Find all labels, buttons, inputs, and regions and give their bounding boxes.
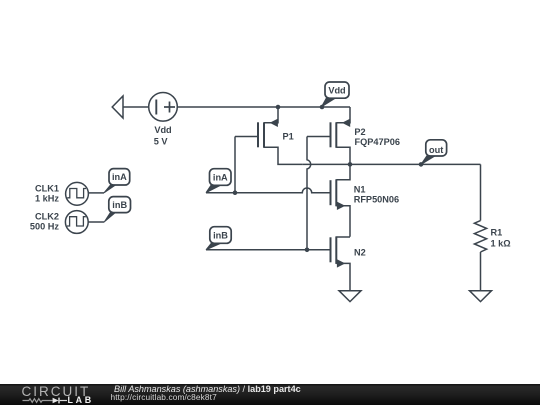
wire inA vertical link (x=235) xyxy=(234,137,236,193)
junction node at rail / P1 source xyxy=(276,105,281,110)
wire P2 drain down to out node xyxy=(336,147,350,164)
wire R1 to ground xyxy=(480,252,482,291)
svg-text:CLK2: CLK2 xyxy=(35,212,59,222)
transistor N2 xyxy=(331,236,345,266)
svg-text:out: out xyxy=(429,145,443,155)
source CLK1 (square wave) xyxy=(66,182,89,205)
value label Vdd / 5 V xyxy=(30,85,511,257)
wire V1 to Vdd rail xyxy=(177,106,350,108)
wire P2 gate lead xyxy=(307,136,331,138)
wire inB (y=249.8) xyxy=(206,249,331,251)
resistor R1 xyxy=(474,221,486,252)
transistor P2 xyxy=(331,119,350,147)
svg-text:5 V: 5 V xyxy=(154,137,169,147)
svg-text:N1: N1 xyxy=(354,184,366,194)
junction node Vdd flag anchor xyxy=(320,105,325,110)
transistor N1 xyxy=(331,179,345,209)
svg-text:P1: P1 xyxy=(283,132,294,142)
svg-text:FQP47P06: FQP47P06 xyxy=(355,137,400,147)
junction node out flag anchor xyxy=(419,162,424,167)
flag inB (left, at CLK2) xyxy=(104,197,130,222)
svg-text:inB: inB xyxy=(213,230,228,240)
wire ground to V1 xyxy=(123,106,148,108)
wire out line (y=164) xyxy=(302,163,480,165)
svg-text:CLK1: CLK1 xyxy=(35,184,59,194)
wire P1 drain to out line xyxy=(264,147,302,164)
svg-text:P2: P2 xyxy=(354,127,365,137)
wire N2 source to ground xyxy=(336,263,350,290)
svg-text:inB: inB xyxy=(112,200,127,210)
svg-text:Vdd: Vdd xyxy=(328,85,345,95)
svg-text:N2: N2 xyxy=(354,248,366,258)
junction node inB / P2-gate link xyxy=(305,248,310,253)
wire P1 gate lead xyxy=(235,136,258,138)
flag out xyxy=(421,140,447,165)
wire inA (y=192.7) with hop over x=307 vertical xyxy=(206,188,331,193)
flag inA (left, at CLK1) xyxy=(104,169,130,193)
svg-text:R1: R1 xyxy=(491,228,503,238)
wire CLK2 to inB flag xyxy=(88,221,104,223)
wire P2 source up to rail xyxy=(336,107,350,123)
svg-text:inA: inA xyxy=(213,172,228,182)
svg-text:Vdd: Vdd xyxy=(154,125,171,135)
ground (below R1) xyxy=(470,291,492,302)
ground (left of voltage source, pointing left) xyxy=(112,96,123,118)
svg-text:500 Hz: 500 Hz xyxy=(30,222,60,232)
logo resistor+diode icon xyxy=(23,398,68,404)
svg-text:inA: inA xyxy=(112,172,127,182)
source CLK2 (square wave) xyxy=(65,211,88,234)
flag Vdd xyxy=(322,82,350,107)
flag inA (middle) xyxy=(206,169,231,193)
CircuitLab logo xyxy=(22,386,91,398)
junction node out (350,164) xyxy=(348,162,353,167)
wire out line corner down to R1 xyxy=(480,164,482,220)
transistor P1 xyxy=(258,119,277,147)
wire P1 source up to rail xyxy=(264,107,278,123)
wire inB vertical link (x=307) with hop over out line xyxy=(307,137,311,250)
flag inB (middle) xyxy=(206,227,231,250)
footer bar xyxy=(0,384,540,405)
wire N1 source lead xyxy=(336,206,350,237)
wire N2 drain lead xyxy=(336,236,350,238)
wire N1 drain from out node xyxy=(336,164,350,179)
svg-text:RFP50N06: RFP50N06 xyxy=(354,195,399,205)
voltage source V1 (Vdd 5 V) xyxy=(149,93,178,122)
wire CLK1 to inA flag xyxy=(88,192,104,194)
ground (below N2) xyxy=(339,291,361,302)
svg-text:1 kHz: 1 kHz xyxy=(35,193,59,203)
svg-text:1 kΩ: 1 kΩ xyxy=(491,239,511,249)
junction node inA / P1-gate link xyxy=(233,190,238,195)
